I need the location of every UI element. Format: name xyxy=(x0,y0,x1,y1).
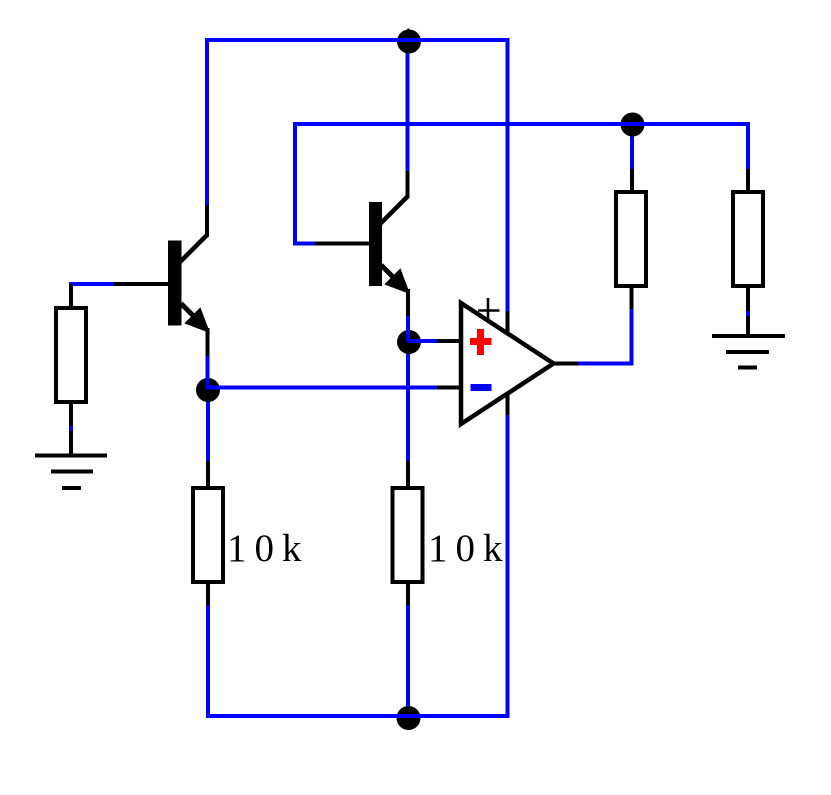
junction node B (Q2 emitter / R2 / non-inverting input) xyxy=(397,330,421,354)
wire second rail xyxy=(295,122,750,126)
pin Q1 collector vertical xyxy=(205,205,209,237)
pin Q2 base lead xyxy=(315,242,371,246)
junction dot second rail xyxy=(621,113,645,137)
transistor Q2 emitter diagonal xyxy=(381,265,404,288)
transistor Q1 base bar xyxy=(168,241,182,326)
wire stub blue blip on R4 bottom lead xyxy=(746,311,750,316)
pin Q2 collector vertical xyxy=(406,171,410,198)
wire second rail left drop xyxy=(293,122,297,245)
junction dot bottom rail xyxy=(397,706,421,730)
pin Q1 base lead xyxy=(114,282,170,286)
wire second rail dot to R3 top xyxy=(630,125,634,172)
op-amp U1 triangle xyxy=(461,303,554,424)
pin R4 bottom lead xyxy=(746,286,750,338)
wire R2 bottom to bottom rail xyxy=(406,603,410,716)
wire to Q1 base xyxy=(69,282,117,286)
pin Q1 emitter vertical xyxy=(206,328,210,356)
resistor R1 (10k) xyxy=(193,488,223,582)
op-amp U1 non-inverting input marker (red plus) xyxy=(470,338,492,345)
ground left bar3 xyxy=(62,486,81,490)
resistor R4 (far right) xyxy=(733,192,763,286)
ground left bar2 xyxy=(51,470,93,474)
resistor R3 (middle right) xyxy=(616,192,646,286)
wire R3 bottom vertical to output xyxy=(630,307,634,366)
svg-text:10k: 10k xyxy=(227,527,310,570)
wire second rail right drop to R4 xyxy=(746,122,750,171)
pin R3 top lead xyxy=(630,169,634,194)
wire to Q2 base xyxy=(293,242,318,246)
resistor R2 (10k) xyxy=(393,488,423,582)
junction dot top rail xyxy=(397,30,421,54)
wire top supply rail xyxy=(205,38,510,42)
pin R2 top lead xyxy=(406,461,410,490)
transistor Q2 base bar xyxy=(369,202,382,286)
transistor Q1 emitter arrowhead xyxy=(187,310,208,331)
pin op-amp non-inverting input xyxy=(437,339,462,343)
pin R1 bottom lead xyxy=(206,582,210,605)
transistor Q2 emitter arrowhead xyxy=(387,271,408,292)
wire bottom rail xyxy=(206,714,510,718)
wire op-amp output horizontal xyxy=(577,362,634,366)
pin op-amp V- (bottom) xyxy=(506,391,510,415)
ground right bar3 xyxy=(738,366,757,370)
pin op-amp output xyxy=(551,362,578,366)
wire Q1 emitter to node A xyxy=(206,354,210,390)
svg-text:10k: 10k xyxy=(428,527,511,570)
wire stub above top junction dot xyxy=(407,29,409,41)
wire top dot to Q2 collector xyxy=(406,42,410,174)
pin R5 bottom lead xyxy=(69,402,73,456)
pin op-amp V+ (top) xyxy=(506,311,510,335)
transistor Q1 emitter diagonal xyxy=(181,304,204,327)
op-amp U1 V+ plus marker (black) xyxy=(478,309,500,312)
op-amp U1 inverting input marker (blue minus) xyxy=(471,384,492,391)
pin R3 bottom lead xyxy=(630,286,634,309)
ground right bar2 xyxy=(726,350,769,354)
wire R1 bottom to bottom rail xyxy=(206,603,210,717)
wire node B down to R2 xyxy=(406,342,410,463)
junction node A (Q1 emitter / R1 / inverting input) xyxy=(196,378,220,402)
wire left drop from top rail to Q1 collector xyxy=(205,38,209,207)
wire right riser lower (op-amp V- to bottom rail) xyxy=(506,413,510,718)
wire Q2 emitter to node B xyxy=(406,314,410,341)
pin op-amp inverting input xyxy=(437,386,462,390)
pin R5 top lead xyxy=(69,284,73,310)
pin R1 top lead xyxy=(206,461,210,490)
wire stub blue blip on R5 bottom lead xyxy=(69,426,73,431)
wire node A down to R1 xyxy=(206,390,210,463)
wire node A to op-amp inverting input xyxy=(208,386,438,390)
ground left bar1 xyxy=(35,454,107,458)
transistor Q2 collector diagonal xyxy=(381,197,408,224)
wire node B to op-amp non-inverting input xyxy=(408,339,438,343)
resistor R5 (left, to Q1 base) xyxy=(56,308,86,402)
ground right bar1 xyxy=(712,334,785,338)
pin R2 bottom lead xyxy=(406,582,410,605)
transistor Q1 collector diagonal xyxy=(180,235,207,262)
pin Q2 emitter vertical xyxy=(406,289,410,316)
wire right riser upper (top rail to op-amp V+) xyxy=(506,38,510,313)
pin R4 top lead xyxy=(746,169,750,194)
